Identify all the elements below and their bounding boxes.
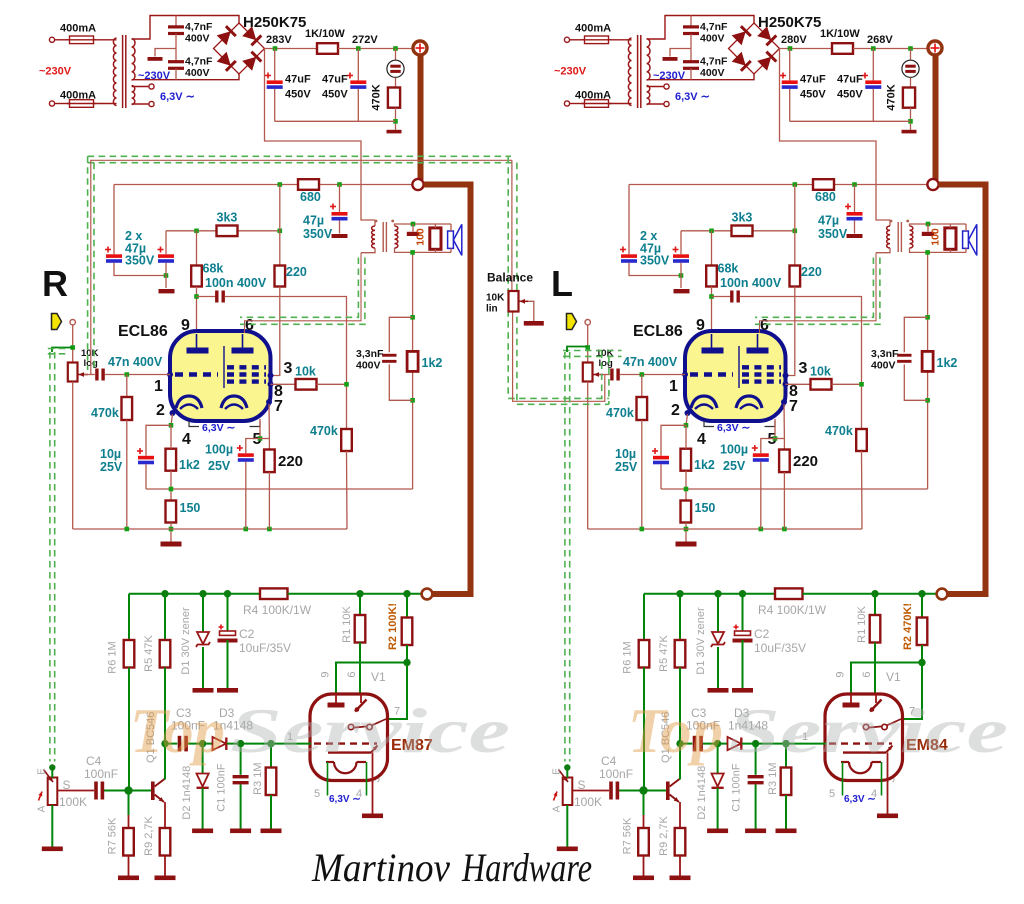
label C3 100nF L: [686, 706, 720, 733]
node 68k top R: [194, 229, 199, 234]
wire R6 top R: [128, 594, 130, 640]
svg-text:268V: 268V: [867, 34, 893, 46]
svg-text:400V: 400V: [356, 360, 381, 372]
pin 4 label em L: [871, 788, 877, 800]
svg-text:25V: 25V: [208, 459, 231, 473]
svg-text:68k: 68k: [203, 262, 224, 276]
label 47uF 450V second L: [837, 74, 863, 101]
svg-text:220: 220: [278, 453, 303, 470]
plus mark C filter 1 L: [780, 73, 786, 79]
resistor R6 1M R: [124, 640, 135, 668]
resistor 1k2 cathode L: [681, 449, 692, 471]
plus mark 2x47u a R: [105, 247, 111, 253]
wire wiper to C4 R: [57, 790, 94, 792]
label 100u 25V L: [720, 443, 748, 474]
wire 150 bottom R: [170, 523, 172, 542]
node rail 470k L: [640, 527, 645, 532]
pin 9 label em R: [320, 671, 332, 677]
ground bar snubber L: [663, 57, 678, 61]
speaker R: [448, 224, 462, 255]
svg-text:4: 4: [182, 431, 191, 448]
shield conductor balance drop: [511, 160, 513, 291]
node collector branch R: [161, 740, 168, 747]
wire fuse to transformer top L: [609, 39, 632, 41]
wire 47u to ground L: [854, 221, 856, 234]
label C2 10uF/35V L: [754, 627, 806, 655]
label 283V R: [266, 34, 292, 46]
svg-text:400mA: 400mA: [60, 23, 96, 35]
plus mark 100u L: [752, 445, 758, 451]
wire 100 top R: [434, 224, 436, 228]
label 272V R: [352, 34, 378, 46]
open circle node B+ L: [927, 179, 938, 190]
jack symbol L: [902, 60, 919, 77]
label ~230V secondary R: [138, 70, 171, 82]
wire R6 bottom R: [128, 668, 130, 791]
svg-text:V1: V1: [886, 670, 901, 684]
wire B+ to output transformer L: [780, 49, 891, 221]
wire 3,3nF to fb R: [389, 364, 412, 400]
node rail 220 L: [782, 527, 787, 532]
wire C3 to D3 R: [188, 743, 212, 745]
wire amp ground rail L: [588, 528, 862, 530]
resistor 470k grid L: [637, 397, 648, 420]
wire 470k grid lead R: [126, 375, 128, 398]
watermark TopService right: [628, 695, 1008, 766]
shield conductor top: [91, 160, 512, 374]
svg-text:400mA: 400mA: [60, 90, 96, 102]
wire 47u lead L: [854, 185, 856, 213]
resistor 1k2 feedback L: [922, 351, 933, 371]
svg-text:10µ: 10µ: [615, 447, 636, 461]
wire feedback vertical L: [927, 252, 929, 489]
resistor 3k3 L: [732, 226, 753, 237]
svg-text:47µ: 47µ: [303, 214, 324, 228]
label 470k grid R: [91, 406, 119, 420]
em cathode L: [841, 762, 881, 773]
node S pot top L: [564, 764, 570, 770]
label 47n 400V R: [108, 355, 163, 369]
node 680 left R: [278, 182, 283, 187]
resistor 470K bleeder R: [388, 88, 400, 108]
wire R7 bottom R: [128, 856, 130, 876]
label E R: [37, 768, 48, 775]
node rail 470k R: [125, 527, 130, 532]
ground bar 47u R: [332, 234, 348, 238]
node rail 100u L: [759, 527, 764, 532]
transformer T1 core L: [638, 35, 641, 108]
resistor 470K bleeder L: [903, 88, 915, 108]
shield dashed cable to S pot: [50, 352, 55, 762]
capacitor 2x47u b L: [673, 254, 689, 263]
svg-text:2: 2: [156, 402, 165, 419]
wire D3 to tube R: [227, 743, 311, 745]
svg-text:10K: 10K: [486, 293, 505, 304]
label 1k2 cathode R: [179, 458, 200, 472]
em pin9 lead+anode bar L: [843, 694, 860, 708]
node 283V R: [273, 46, 278, 51]
node fb top R: [410, 315, 415, 320]
wire R9 bottom L: [679, 856, 681, 876]
svg-text:400V: 400V: [185, 67, 210, 79]
label 10u 25V R: [100, 447, 123, 474]
wire C3 to D3 L: [703, 743, 727, 745]
label 3,3nF 400V L: [871, 348, 899, 372]
label 1k2 feedback L: [937, 356, 958, 370]
node D2 branch L: [714, 740, 721, 747]
transformer T1 6.3V secondary L: [647, 86, 650, 105]
bridge rectifier H250K75 L: [729, 23, 780, 74]
wire cap1 top lead R: [274, 49, 276, 81]
svg-text:100n 400V: 100n 400V: [720, 276, 782, 290]
svg-text:Top: Top: [130, 695, 225, 766]
wire 220 to pin3 R: [271, 287, 280, 376]
svg-text:3: 3: [799, 360, 808, 377]
shield dashed left verticals: [88, 156, 94, 370]
svg-text:9: 9: [696, 317, 705, 334]
triode+pentode tube ECL86 R: [167, 331, 274, 421]
balance wiper arrow: [520, 299, 529, 304]
wire C2 top L: [742, 594, 744, 632]
wire 470k grid lead L: [641, 375, 643, 398]
svg-text:E: E: [37, 768, 48, 775]
transformer T1 core R: [123, 35, 126, 108]
label R2 R: [387, 603, 399, 650]
node R2 bottom R: [403, 659, 410, 666]
plus mark 2x47u b L: [673, 247, 679, 253]
resistor R5 47K L: [675, 640, 686, 668]
wire 3,3nF branch L: [904, 317, 927, 352]
pin 5 label em L: [829, 788, 835, 800]
label 6,3V ~ L: [675, 91, 710, 103]
label V1 L: [886, 670, 901, 684]
node 68k top L: [709, 229, 714, 234]
wire balance wiper to ground: [528, 301, 534, 321]
label 3,3nF 400V R: [356, 348, 384, 372]
wire pin7 down R: [268, 404, 270, 450]
label D2 1n4148 R: [181, 766, 193, 820]
svg-text:100µ: 100µ: [720, 443, 748, 457]
plus output terminal R: [413, 41, 427, 55]
node ground rail L: [908, 119, 913, 124]
fuse F1 400mA R: [67, 36, 97, 44]
wire D2 top L: [717, 744, 719, 774]
node 150 rail R: [169, 527, 174, 532]
svg-text:3,3nF: 3,3nF: [871, 348, 899, 360]
resistor 68k L: [706, 266, 717, 287]
node 3k3 right L: [793, 229, 798, 234]
label 220 cathode R: [278, 453, 303, 470]
wire pin2 cathode L: [686, 414, 688, 425]
label 220 screen L: [801, 265, 822, 279]
wire HV secondary bottom to bridge L: [647, 74, 754, 80]
svg-text:R1 10K: R1 10K: [856, 605, 868, 642]
em deflector L: [843, 746, 893, 753]
label 400mA top R: [60, 23, 96, 35]
pin 3 label em R: [371, 776, 383, 782]
wire plate pin6 to OT L: [760, 253, 877, 333]
label 470k pentode R: [310, 424, 338, 438]
label R9 2,7K L: [658, 815, 670, 855]
label R9 2,7K R: [143, 815, 155, 855]
wire pin5 node join L: [775, 438, 784, 440]
resistor R7 56K L: [638, 828, 649, 856]
label 47uF 450V second R: [322, 74, 348, 101]
node rail 100u R: [244, 527, 249, 532]
wire 220 cathode bottom L: [783, 472, 785, 529]
wire R7 top R: [128, 791, 130, 829]
label 47u 350V L: [818, 214, 848, 242]
label R5 47K R: [143, 634, 155, 671]
wire B+ to output transformer R: [265, 49, 376, 221]
label Q1 BC546 R: [145, 712, 157, 763]
ground bar em L: [877, 814, 898, 819]
svg-text:470K: 470K: [886, 84, 898, 110]
label 150 R: [180, 501, 201, 515]
resistor 68k R: [191, 266, 202, 287]
wire 2x47u b top L: [680, 231, 682, 255]
svg-text:6,3V ∼: 6,3V ∼: [675, 91, 710, 103]
shield green tap to cable: [52, 348, 73, 353]
wire 68k top lead R: [196, 231, 198, 266]
em pin3 lead R: [372, 753, 374, 814]
wire D3 to tube L: [742, 743, 826, 745]
ground bar amp L: [676, 542, 697, 547]
pin 1 label L: [669, 378, 678, 395]
node fb top L: [925, 315, 930, 320]
resistor R4 100K/1W L: [775, 588, 803, 599]
svg-text:10k: 10k: [810, 365, 831, 379]
svg-text:6,3V ∼: 6,3V ∼: [329, 794, 361, 805]
jack symbol R: [387, 60, 404, 77]
node bus x407 R: [403, 590, 410, 597]
svg-text:6,3V ∼: 6,3V ∼: [202, 422, 236, 434]
label ECL86 L: [633, 323, 683, 340]
node bus x227.5 R: [224, 590, 231, 597]
svg-text:100nF: 100nF: [599, 767, 633, 781]
wire cap2 top lead R: [357, 49, 359, 81]
em deflector R: [328, 746, 378, 753]
node secondary bottom L: [925, 250, 930, 255]
ground bar D1 L: [708, 688, 729, 693]
shield dashed right pot horizontals: [563, 351, 622, 357]
wire 470K to rail R: [395, 108, 397, 130]
wire C1 top R: [240, 744, 242, 775]
pot S wiper L: [559, 770, 569, 783]
svg-text:log: log: [599, 358, 613, 369]
label ~230V mains L: [554, 66, 587, 78]
wire 10u to fb rail R: [145, 464, 147, 489]
wire 470k pentode bottom L: [861, 451, 864, 529]
channel letter R: [42, 263, 68, 304]
svg-text:280V: 280V: [781, 34, 807, 46]
node 47u top L: [852, 182, 857, 187]
wire 10k to node L: [832, 383, 862, 385]
wire D2 bottom R: [202, 788, 204, 829]
svg-text:400V: 400V: [700, 67, 725, 79]
wire speaker top R: [450, 224, 452, 231]
wire 68k top lead L: [711, 231, 713, 266]
label 2x 47u 350V R: [125, 229, 155, 268]
wire 3,3nF to fb L: [904, 364, 927, 400]
pin 5 label R: [253, 431, 262, 448]
wire 100n left R: [197, 296, 216, 298]
terminal circle mains bottom R: [49, 101, 54, 106]
shield dashed right pot verticals: [602, 352, 609, 405]
resistor R2 R: [402, 618, 413, 646]
node jack top R: [393, 46, 398, 51]
shield dashes plate vertical L: [755, 258, 880, 325]
ground bar 2x47u R: [159, 289, 175, 293]
capacitor C1 100nF R: [233, 775, 249, 784]
capacitor 47uF 450V first R: [267, 80, 283, 89]
label Q1 BC546 L: [660, 712, 672, 763]
svg-text:6,3V ∼: 6,3V ∼: [844, 794, 876, 805]
node bus x165 R: [161, 590, 168, 597]
capacitor C1 100nF L: [748, 775, 764, 784]
wire 150 bottom L: [685, 523, 687, 542]
ground bar snubber R: [148, 57, 163, 61]
wire 100n right R: [225, 297, 347, 430]
capacitor 47u 350V R: [332, 212, 348, 221]
ground bar C1 R: [230, 829, 251, 834]
wire C2 bottom L: [742, 640, 744, 688]
capacitor C3 100nF L: [693, 736, 703, 752]
node bus x165 L: [676, 590, 683, 597]
wire C2 top R: [227, 594, 229, 632]
pin 9 label L: [696, 317, 705, 334]
wire S pot bottom R: [51, 805, 53, 847]
triode+pentode tube ECL86 L: [682, 331, 789, 421]
wire wiper to C4 L: [572, 790, 609, 792]
plus mark 10u R: [137, 448, 143, 454]
svg-text:450V: 450V: [837, 89, 863, 101]
wire D1 top L: [717, 594, 719, 632]
terminal 6.3V top R: [149, 84, 154, 89]
svg-text:C1 100nF: C1 100nF: [731, 763, 743, 812]
svg-text:47uF: 47uF: [837, 74, 863, 86]
potentiometer 10K log L: [583, 363, 593, 382]
fuse F1 400mA L: [582, 36, 612, 44]
wire C1 bottom R: [240, 784, 242, 828]
svg-text:H250K75: H250K75: [243, 14, 306, 31]
wire snubber mid L: [690, 34, 692, 61]
speaker L: [963, 224, 977, 255]
green bus right R: [288, 593, 422, 595]
label 4,7nF 400V upper L: [700, 21, 728, 45]
wire cap2 bottom lead L: [872, 89, 874, 121]
svg-text:R9 2,7K: R9 2,7K: [143, 815, 155, 855]
svg-text:220: 220: [286, 265, 307, 279]
capacitor 3,3nF 400V L: [897, 354, 911, 363]
wire pin8 to 10k R: [271, 383, 296, 385]
svg-text:~230V: ~230V: [138, 70, 171, 82]
fuse F2 400mA R: [67, 100, 97, 108]
pin 7 label R: [274, 398, 283, 415]
ground bar D1 R: [193, 688, 214, 693]
wire 100 bottom L: [949, 249, 951, 252]
phase dot secondary L: [906, 220, 909, 223]
label 268V L: [867, 34, 893, 46]
svg-text:4: 4: [697, 431, 706, 448]
pin 3 label R: [284, 360, 293, 377]
wire AC input top L: [569, 39, 585, 41]
svg-text:1k2: 1k2: [422, 356, 443, 370]
wire OT secondary top L: [910, 224, 967, 226]
resistor R9 2,7K R: [160, 828, 171, 856]
wire pin8 to 10k L: [786, 383, 811, 385]
svg-text:Top: Top: [628, 695, 723, 766]
label ECL86 R: [118, 323, 168, 340]
pin 4 label R: [182, 431, 191, 448]
shield dashed stub near pot: [48, 349, 68, 354]
shield dashes plate vertical R: [240, 258, 365, 325]
node R3 branch R: [267, 740, 274, 747]
wire cap2 top lead L: [872, 49, 874, 81]
svg-text:R3 1M: R3 1M: [252, 762, 264, 794]
diode D3 1n4148 L: [728, 737, 742, 750]
wire speaker bottom R: [450, 248, 452, 252]
wire feedback rail L: [661, 488, 928, 490]
svg-text:400V: 400V: [700, 33, 725, 45]
pin 3 label L: [799, 360, 808, 377]
svg-text:6: 6: [346, 671, 358, 677]
wire B+ left drop L: [628, 185, 630, 255]
svg-text:1: 1: [154, 378, 163, 395]
capacitor C2 10uF/35V L: [733, 631, 753, 643]
wire to pin7 L: [901, 663, 922, 720]
wire pin5 to 100u R: [246, 439, 260, 454]
svg-text:450V: 450V: [800, 89, 826, 101]
wire base L: [618, 790, 666, 792]
wire pot bottom R: [72, 382, 74, 530]
wire 3k3 row R: [166, 230, 280, 232]
wire pin5 node join R: [260, 438, 269, 440]
node secondary top R: [411, 222, 416, 227]
node C1 branch L: [752, 740, 759, 747]
svg-text:1k2: 1k2: [694, 458, 715, 472]
plus mark 10u L: [652, 448, 658, 454]
label 4,7nF 400V lower L: [700, 56, 728, 80]
em pin7 contacts R: [348, 719, 386, 730]
label 470K bleeder L: [886, 84, 898, 110]
svg-text:450V: 450V: [322, 89, 348, 101]
pin 4 label L: [697, 431, 706, 448]
label R1 10K R: [341, 605, 353, 642]
wire 2x47u b bottom L: [680, 263, 682, 288]
label 470K bleeder R: [371, 84, 383, 110]
label C3 100nF R: [171, 706, 205, 733]
resistor 100 zobel R: [430, 228, 441, 249]
svg-text:3k3: 3k3: [217, 211, 238, 225]
terminal circle mains top R: [49, 37, 54, 42]
resistor 220 cathode L: [779, 450, 790, 473]
resistor R3 1M L: [781, 768, 792, 796]
svg-text:R1 10K: R1 10K: [341, 605, 353, 642]
svg-text:272V: 272V: [352, 34, 378, 46]
resistor 470k grid R: [122, 397, 133, 420]
pin 7 label em R: [394, 706, 400, 718]
capacitor C4 100nF R: [94, 782, 104, 800]
label V1 R: [371, 670, 386, 684]
label 470k grid L: [606, 406, 634, 420]
node bus x203 R: [199, 590, 206, 597]
label 1K/10W R: [305, 28, 345, 40]
svg-text:Service: Service: [728, 695, 1008, 766]
wire R1 top L: [874, 594, 876, 615]
wire OT primary top lead L: [889, 220, 891, 226]
resistor 3k3 R: [217, 226, 238, 237]
